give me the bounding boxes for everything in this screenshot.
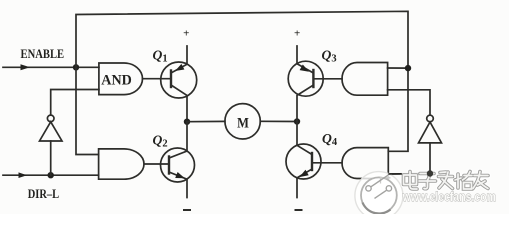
arrowhead DIR-L	[19, 172, 28, 178]
wire AND3 top input	[388, 67, 408, 69]
node right junction	[405, 65, 411, 71]
svg-text:www.elecfans.com: www.elecfans.com	[402, 189, 496, 204]
wire ENABLE input	[3, 66, 99, 68]
wire top rail from ENABLE junction to right gates	[76, 11, 408, 151]
minus right	[296, 209, 302, 211]
wire AND4 output to Q4 base	[312, 162, 342, 164]
node ENABLE junction	[73, 64, 79, 70]
svg-text:DIR–L: DIR–L	[28, 186, 60, 201]
transistor Q2	[161, 148, 195, 182]
AND gate U3 (AND2)	[99, 149, 144, 179]
transistor Q1	[161, 62, 197, 98]
svg-text:AND: AND	[101, 72, 132, 88]
wire AND3 bottom input to inverter U5 output	[388, 90, 430, 115]
inverter U5 input wire	[429, 143, 431, 174]
AND gate U2 (AND1)	[99, 63, 143, 95]
wire AND1 output to Q1 base	[143, 78, 172, 80]
wire Q3 base to AND3 output	[313, 78, 342, 80]
svg-text:ENABLE: ENABLE	[21, 47, 65, 61]
transistor Q4	[286, 144, 321, 179]
wire AND4 bottom input (visible segment)	[388, 173, 402, 175]
inverter U5 triangle	[419, 122, 442, 143]
node inverter right input	[427, 170, 433, 176]
AND gate U6 (AND4, mirrored)	[342, 148, 388, 179]
wire motor left lead	[187, 120, 225, 122]
AND gate U4 (AND3, mirrored)	[342, 63, 388, 96]
arrowhead ENABLE	[21, 64, 31, 70]
watermark logo elecfans	[355, 172, 403, 220]
svg-text:+: +	[294, 28, 300, 40]
minus left	[184, 209, 190, 211]
wire motor right lead	[260, 120, 297, 122]
transistor Q3	[288, 61, 323, 96]
inverter U1 triangle	[40, 122, 63, 141]
node DIR-L junction	[48, 172, 54, 178]
wire AND2 output to Q2 base	[144, 163, 169, 165]
node inverter right input (redrawn above watermark)	[427, 170, 433, 176]
wire AND4 bottom input	[388, 173, 430, 176]
svg-text:M: M	[237, 116, 249, 132]
svg-text:+: +	[183, 28, 189, 40]
watermark text CJK (glyph approximations)	[404, 172, 489, 190]
wire inverter U1 output to AND1 bottom input	[51, 90, 99, 116]
inverter U1 bubble	[47, 115, 54, 122]
wire ENABLE junction down to AND2 top input	[76, 67, 99, 154]
inverter U5 bubble	[427, 115, 434, 122]
inverter U1 input wire	[50, 141, 52, 175]
node motor right	[294, 118, 300, 124]
wire DIR-L input	[3, 174, 99, 176]
node motor left	[184, 119, 190, 125]
motor M	[225, 104, 260, 139]
